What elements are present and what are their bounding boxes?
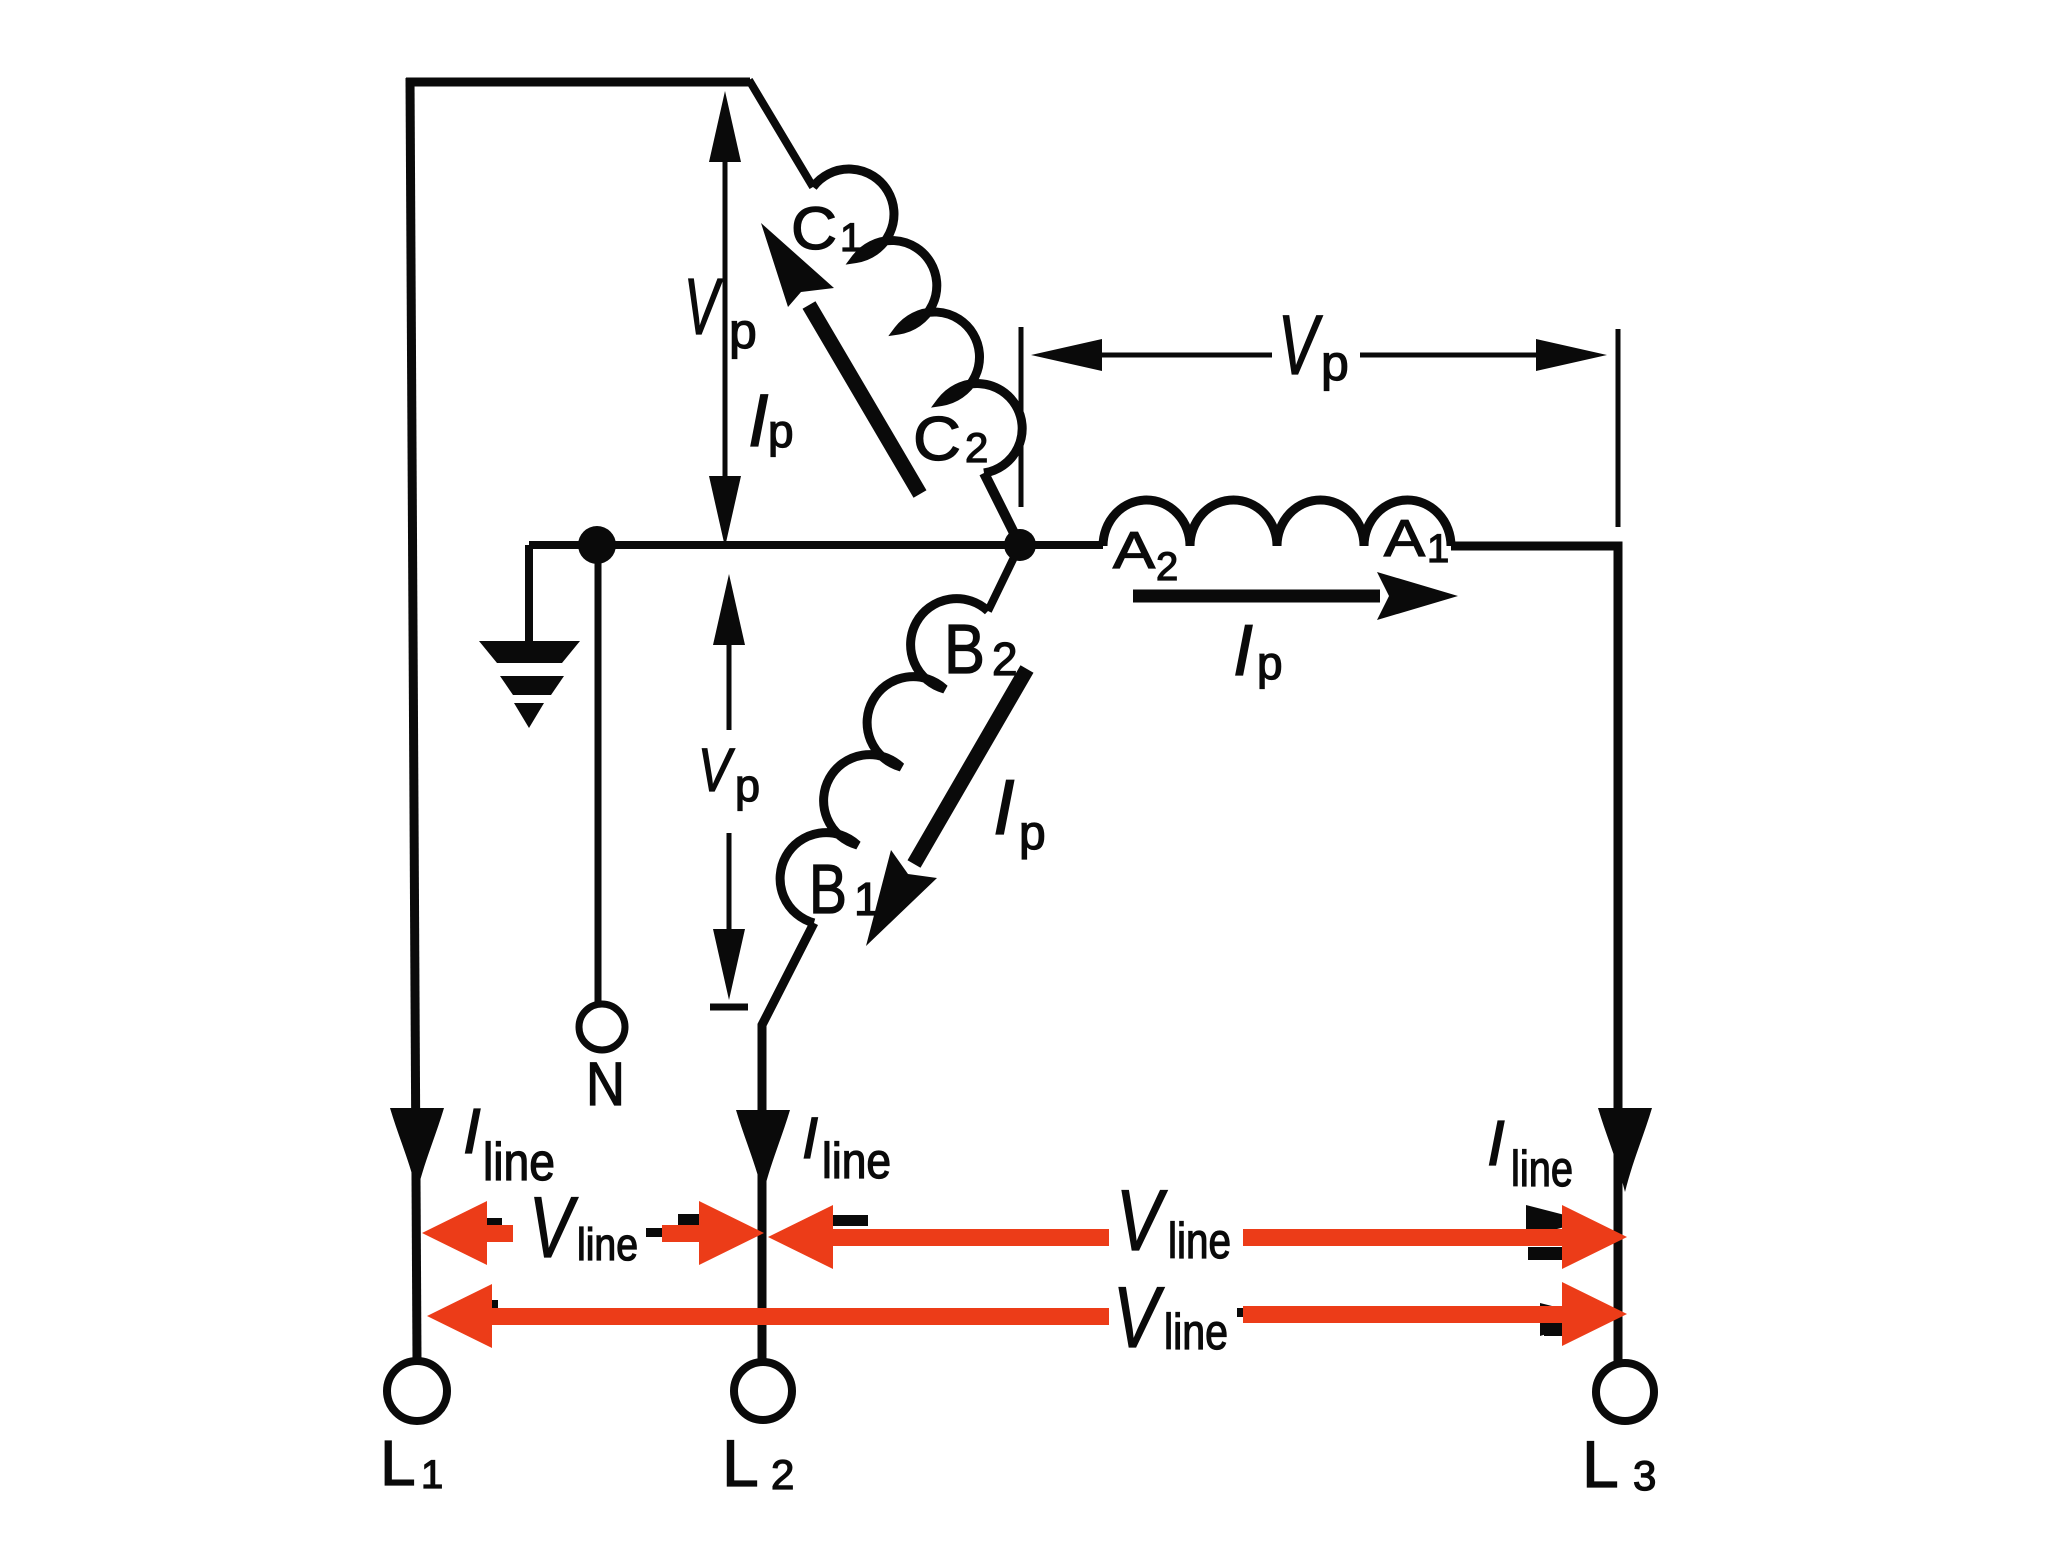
svg-text:3: 3 (1633, 1452, 1656, 1499)
svg-text:C: C (791, 195, 837, 262)
current arrow Ip B-phase (866, 669, 1027, 946)
svg-text:p: p (729, 303, 757, 359)
current arrow Ip C-phase (761, 223, 920, 494)
wire L1 vertical (410, 78, 417, 1360)
svg-text:I: I (1487, 1107, 1505, 1179)
svg-text:C: C (913, 405, 961, 474)
terminal circle L3 (1596, 1363, 1654, 1421)
svg-text:L: L (1582, 1427, 1619, 1501)
svg-text:p: p (768, 405, 794, 457)
red arrow Vline L1-L3 (427, 1284, 492, 1348)
svg-text:I: I (463, 1095, 481, 1167)
wire B1 to L2 (762, 923, 814, 1360)
svg-text:line: line (1168, 1213, 1231, 1269)
terminal circle L1 (387, 1361, 447, 1421)
current arrow Iline L1 (390, 1108, 444, 1192)
terminal circle L2 (734, 1362, 792, 1420)
svg-text:I: I (802, 1106, 818, 1171)
svg-text:line: line (822, 1133, 891, 1189)
svg-text:2: 2 (771, 1451, 794, 1498)
svg-text:1: 1 (840, 216, 862, 260)
wire neutral to N terminal (595, 545, 602, 1004)
inductor B winding (780, 599, 988, 923)
svg-text:p: p (735, 760, 760, 811)
dimension Vp upper-left vertical line (709, 91, 741, 547)
svg-text:p: p (1019, 807, 1046, 860)
current arrow Iline L3 (1598, 1108, 1652, 1192)
svg-text:line: line (1511, 1141, 1573, 1197)
current arrow Iline L2 (736, 1110, 790, 1194)
svg-text:V: V (1113, 1270, 1165, 1366)
svg-text:B: B (944, 610, 985, 688)
svg-text:I: I (993, 763, 1015, 851)
svg-text:line: line (1164, 1304, 1228, 1360)
node star point dot (1004, 529, 1036, 561)
current arrow Ip A-phase (1133, 572, 1458, 620)
dimension Vp lower-left vertical line (710, 574, 748, 1007)
svg-text:L: L (380, 1427, 416, 1499)
ground symbol (479, 641, 580, 728)
svg-text:I: I (748, 379, 769, 462)
wire top horizontal (406, 78, 750, 87)
inductor C winding (813, 169, 1022, 473)
svg-text:A: A (1113, 522, 1155, 580)
svg-text:line: line (577, 1219, 638, 1270)
junction dot neutral tap (578, 526, 616, 564)
red arrow Vline L1-L2 right head (662, 1225, 702, 1242)
svg-text:p: p (1257, 637, 1283, 689)
wire ground drop (525, 545, 533, 641)
svg-text:V: V (1116, 1173, 1168, 1269)
svg-text:L: L (722, 1426, 759, 1500)
black dimension remnants under red arrows (466, 1205, 1600, 1336)
terminal N circle (579, 1004, 625, 1050)
inductor A winding (1103, 500, 1451, 546)
wire node to B winding (988, 545, 1020, 611)
svg-text:V: V (684, 262, 723, 351)
svg-text:I: I (1233, 611, 1253, 691)
svg-text:V: V (1278, 298, 1323, 392)
dimension Vp top horizontal (1021, 327, 1618, 527)
red arrow Vline L1-L2 left head (422, 1201, 1627, 1348)
svg-text:1: 1 (1427, 527, 1449, 571)
svg-text:2: 2 (1156, 545, 1178, 589)
svg-text:B: B (809, 850, 847, 928)
svg-text:V: V (529, 1180, 579, 1276)
wire neutral horizontal (529, 541, 1103, 549)
svg-text:A: A (1384, 510, 1425, 568)
svg-text:N: N (586, 1050, 625, 1118)
svg-text:1: 1 (421, 1453, 443, 1497)
wire A1 to L3 (1451, 546, 1618, 1362)
svg-text:2: 2 (965, 424, 988, 471)
red arrow Vline L2-L3 (768, 1205, 833, 1269)
svg-text:p: p (1321, 335, 1349, 391)
wire C2 to node (984, 473, 1020, 545)
svg-text:V: V (698, 736, 735, 804)
wire C-phase top diagonal (749, 80, 813, 187)
